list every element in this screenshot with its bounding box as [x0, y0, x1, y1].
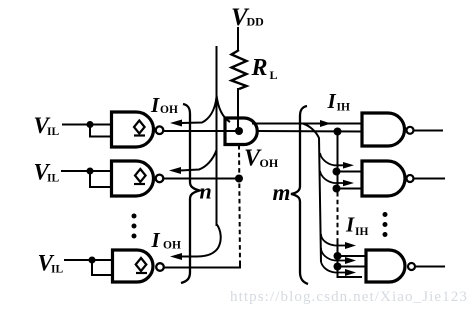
- svg-text:IH: IH: [337, 102, 350, 114]
- wire RG1 output: [414, 130, 443, 132]
- svg-text:IL: IL: [47, 126, 59, 138]
- current arrow RG3 a: [335, 242, 356, 249]
- svg-text:L: L: [270, 68, 278, 82]
- wire VIL1 input: [62, 124, 112, 126]
- label VIL 1: [34, 113, 60, 138]
- label VIL 3: [38, 251, 64, 276]
- load bus vertical: [337, 132, 339, 193]
- wire RG3 output: [416, 266, 446, 268]
- wire RG3 input 1: [338, 255, 367, 257]
- current arrow IOH 1: [170, 97, 217, 127]
- wire node to RG1 input 2: [257, 130, 362, 133]
- label IOH 1: [150, 93, 178, 117]
- label IOH 2: [151, 228, 181, 252]
- dashed wire node down: [239, 145, 240, 263]
- current arrow IOH 2: [169, 150, 217, 174]
- wire resistor to node: [237, 88, 239, 130]
- current arrow IIH 1: [320, 120, 331, 127]
- junction dot input 3: [89, 257, 96, 264]
- label IIH 1: [327, 89, 350, 114]
- NAND gate RG3 body: [366, 250, 405, 282]
- NAND gate RG2 body: [362, 161, 405, 196]
- current flare RG2 a: [320, 153, 344, 165]
- svg-text:OH: OH: [160, 104, 178, 116]
- ellipsis right: [383, 212, 388, 237]
- wired-AND node symbol: [225, 118, 257, 145]
- current bundle right: [303, 124, 321, 263]
- load bus dashed continuation: [337, 192, 339, 241]
- svg-text:DD: DD: [247, 15, 265, 29]
- svg-text:I: I: [150, 93, 160, 117]
- open-drain diamond G3: [136, 258, 147, 273]
- ellipsis left: [132, 214, 137, 239]
- junction dot RG2 a: [333, 168, 341, 176]
- svg-text:m: m: [273, 180, 291, 205]
- svg-text:I: I: [345, 213, 355, 237]
- wire node to RG1 input 1: [252, 123, 362, 125]
- open-drain diamond G2: [134, 169, 146, 184]
- junction dot node VOH: [235, 127, 243, 135]
- output bubble G2: [156, 175, 164, 183]
- svg-text:IL: IL: [51, 264, 63, 276]
- NAND gate RG1 body: [362, 113, 405, 146]
- wire RG2 output: [414, 178, 445, 180]
- current arrow RG3 c: [345, 269, 356, 276]
- svg-text:IL: IL: [47, 173, 59, 185]
- junction dot RG3 a: [334, 252, 342, 260]
- current flare RG3 a: [321, 234, 335, 246]
- label RL: [251, 55, 278, 82]
- wire VIL2 input: [61, 170, 112, 172]
- svg-text:https://blog.csdn.net/Xiao_Jie: https://blog.csdn.net/Xiao_Jie123: [230, 289, 468, 305]
- wire input jog gate G2: [90, 171, 112, 187]
- OD gate G1 body: [112, 112, 154, 147]
- output bubble G3: [156, 263, 164, 271]
- label VDD: [231, 4, 264, 31]
- wire input jog gate G1: [90, 125, 112, 137]
- junction dot input 1: [87, 121, 94, 128]
- wire RG3 input 2: [338, 266, 367, 268]
- label IIH 2: [345, 213, 368, 239]
- current bundle line: [216, 46, 218, 226]
- brace m: [291, 106, 308, 284]
- current arrow RG2 a: [343, 162, 354, 169]
- wire VDD to resistor: [237, 27, 239, 51]
- junction dot G2 output on dashed line: [235, 175, 243, 183]
- load bus lower: [338, 241, 363, 277]
- current arrow RG2 b: [343, 180, 354, 187]
- svg-text:OH: OH: [163, 240, 181, 252]
- label VIL 2: [34, 160, 60, 185]
- current arrow RG3 b: [345, 257, 356, 264]
- output bubble RG2: [407, 175, 414, 182]
- OD gate G2 body: [112, 161, 154, 196]
- junction dot input 2: [87, 168, 94, 175]
- wire RG2 input 2: [337, 188, 363, 190]
- wire input jog gate G3: [92, 260, 113, 275]
- current flare RG2 b: [320, 171, 344, 183]
- wire G1 output to node: [164, 130, 239, 132]
- open-drain diamond G1: [134, 121, 145, 136]
- label VOH: [244, 146, 279, 172]
- brace n: [181, 104, 200, 283]
- svg-text:n: n: [200, 179, 212, 204]
- output bubble G1: [156, 126, 164, 134]
- svg-text:R: R: [251, 55, 268, 81]
- current flare to node: [217, 95, 231, 122]
- current arrow IOH 3: [170, 224, 221, 260]
- junction dot bus top: [334, 128, 342, 136]
- wire VIL3 input: [64, 259, 113, 261]
- wire RG2 input 1: [337, 171, 363, 173]
- resistor RL: [232, 50, 247, 89]
- svg-text:I: I: [151, 228, 161, 252]
- current flare RG3 b: [321, 248, 346, 261]
- wire corner to gate G3 output: [165, 262, 241, 268]
- junction dot RG2 b: [333, 185, 341, 193]
- svg-text:I: I: [327, 89, 337, 113]
- current flare RG3 c: [321, 262, 346, 273]
- output bubble RG3: [408, 263, 415, 270]
- junction dot RG3 b: [334, 263, 342, 271]
- output bubble RG1: [407, 127, 414, 134]
- svg-text:IH: IH: [355, 226, 368, 238]
- OD gate G3 body: [113, 250, 154, 282]
- svg-text:OH: OH: [260, 156, 279, 170]
- wire G2 output to dashed line: [164, 178, 239, 180]
